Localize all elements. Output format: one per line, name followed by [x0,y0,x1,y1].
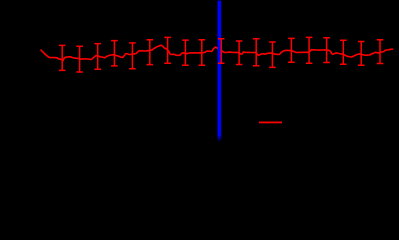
error bar 1 (x=62.2) [59,45,66,70]
error bar 11 (x=239.1) [236,41,243,65]
legend sample line [259,122,282,124]
error bar 2 (x=79.6) [76,46,83,72]
error bar 4 (x=114.4) [111,41,118,66]
error bar 17 (x=343.3) [340,40,347,64]
red data curve [41,45,393,60]
error bar 13 (x=272.4) [269,42,276,67]
error bar 19 (x=380.0) [377,40,384,64]
error bar 6 (x=149.8) [147,40,154,65]
blue vertical marker line [218,1,222,143]
error bar 3 (x=97.7) [94,44,101,70]
error bar 9 (x=201.8) [199,40,206,65]
error bar 10 (x=221.2, over blue line) [218,39,225,63]
error bar 5 (x=132.4) [129,43,136,69]
error bar 12 (x=256.2) [253,39,260,66]
error bar 16 (x=326.6) [323,38,330,63]
error bar 14 (x=291.4) [288,38,295,62]
error bar 7 (x=167.6) [164,37,171,63]
error bar 15 (x=309.1) [306,37,313,63]
error bar 8 (x=185.4) [182,40,189,65]
error bar 18 (x=361.2) [358,42,365,66]
